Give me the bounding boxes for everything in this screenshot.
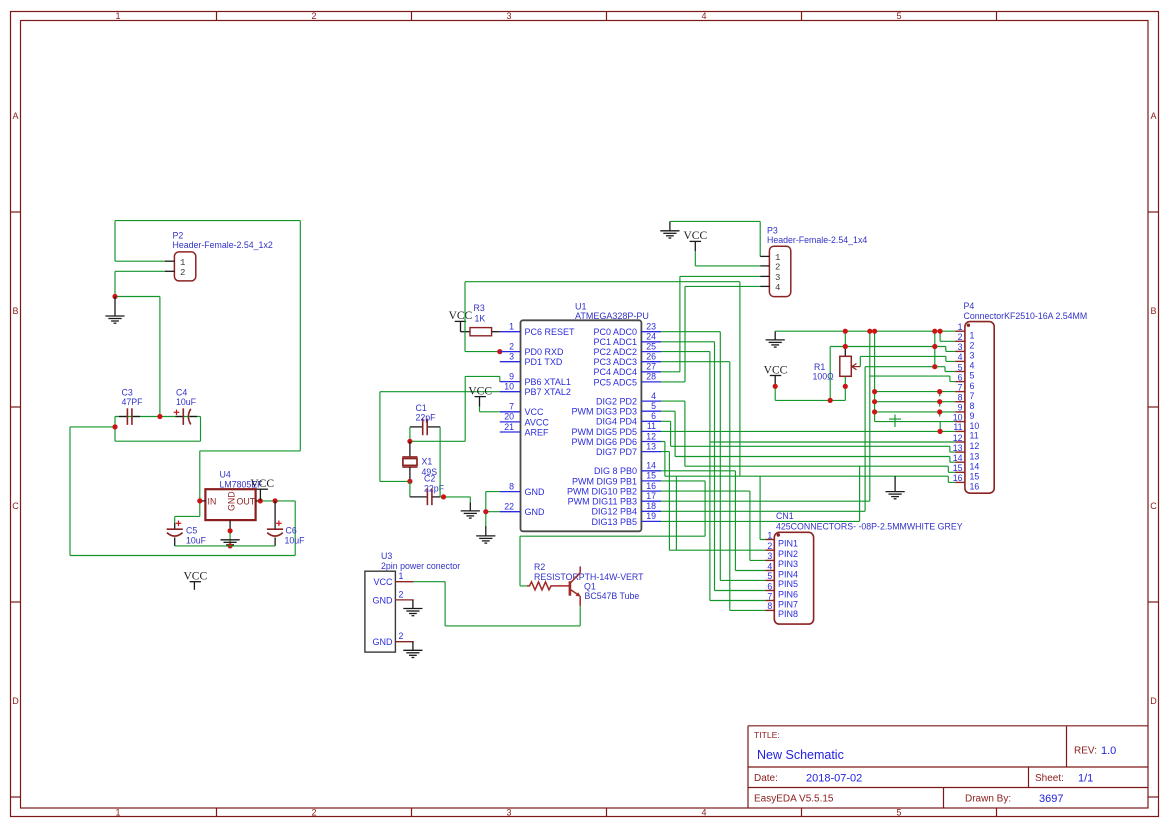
svg-text:C: C	[1150, 501, 1157, 511]
power flag VCC at U4 OUT	[250, 478, 274, 490]
svg-text:U1: U1	[575, 302, 587, 312]
svg-text:1: 1	[399, 571, 404, 581]
junction U1 pin2	[497, 349, 502, 354]
junction vcc rail x830	[828, 398, 833, 403]
P4 pin 7	[955, 382, 974, 400]
junction U4 IN	[197, 498, 202, 503]
svg-text:425CONNECTORS- -08P-2.5MMWHITE: 425CONNECTORS- -08P-2.5MMWHITE GREY	[776, 521, 963, 531]
P4 pin 11	[953, 422, 978, 440]
svg-text:7: 7	[509, 402, 514, 412]
svg-text:GND: GND	[525, 507, 546, 517]
P4 pin 9	[955, 403, 974, 421]
wire U1 pin14 to CN1 PIN4	[661, 471, 766, 571]
svg-text:2: 2	[311, 11, 316, 21]
junction bus x940	[938, 329, 943, 334]
svg-text:DIG4 PD4: DIG4 PD4	[596, 417, 637, 427]
U1 pin 16 PWM DIG10 PB2	[567, 481, 661, 497]
ground bars below P4	[886, 492, 905, 499]
U1 pin 28 PC5 ADC5	[593, 372, 661, 388]
junction crystal top	[407, 439, 412, 444]
ground bars at U3 pin2a	[403, 609, 422, 616]
U1 pin 25 PC2 ADC2	[593, 341, 661, 357]
svg-text:2: 2	[767, 541, 772, 551]
svg-text:12: 12	[970, 441, 980, 451]
svg-text:ATMEGA328P-PU: ATMEGA328P-PU	[575, 311, 649, 321]
svg-text:C3: C3	[122, 388, 133, 398]
junction R1 top pin3 line	[843, 344, 848, 349]
svg-text:7: 7	[970, 391, 975, 401]
svg-text:10: 10	[970, 421, 980, 431]
svg-text:VCC: VCC	[373, 577, 393, 587]
U1 pin 12 PWM DIG6 PD6	[571, 431, 661, 447]
svg-text:5: 5	[651, 401, 656, 411]
U3 pin 2 GND	[373, 631, 414, 647]
wire C1 left leg	[409, 427, 411, 441]
svg-text:5: 5	[896, 11, 901, 21]
svg-text:12: 12	[646, 431, 656, 441]
CN1 pin 7 PIN7	[766, 591, 799, 609]
svg-text:10: 10	[953, 412, 963, 422]
wire dangling stub row8	[939, 402, 941, 407]
wire U1 pin23 to CN1 PIN5	[661, 332, 766, 581]
power flag VCC at R3	[449, 310, 473, 322]
svg-text:1: 1	[180, 258, 185, 268]
wire U1 pin11 to P4 pin11	[661, 430, 955, 432]
P4 pin1 marker	[967, 324, 970, 327]
capacitor C3	[119, 408, 140, 425]
U1 pin 11 PWM DIG5 PD5	[571, 421, 661, 437]
svg-text:DIG 8 PB0: DIG 8 PB0	[594, 466, 637, 476]
svg-text:15: 15	[646, 471, 656, 481]
wire U1 pin12 to P4 pin16	[661, 442, 955, 483]
svg-text:B: B	[12, 306, 18, 316]
ground stem below P4	[894, 476, 896, 491]
VCC stem at P3	[694, 241, 696, 251]
junction pin5 line x934	[932, 364, 937, 369]
ground stem at U3 pin2b	[412, 642, 414, 650]
svg-text:20: 20	[504, 412, 514, 422]
svg-text:4: 4	[701, 808, 706, 818]
svg-text:6: 6	[651, 411, 656, 421]
junction C3 left node	[112, 424, 117, 429]
wire C2 right to ground	[440, 497, 470, 502]
wire VCC to P3 pin2	[695, 251, 760, 266]
U3 pin 2 GND	[373, 589, 414, 605]
svg-text:8: 8	[958, 393, 963, 403]
wire U1 pin13 to CN1 PIN2	[661, 452, 766, 551]
VCC stem at U4 OUT	[259, 489, 261, 501]
capacitor C6 polarized	[267, 501, 283, 546]
U1 pin 19 DIG13 PB5	[591, 511, 661, 527]
svg-text:4: 4	[701, 11, 706, 21]
wire bus drop to P4 pin10 line	[874, 331, 876, 421]
power flag VCC at R1	[764, 364, 788, 376]
junction P4 pin11 link	[938, 429, 943, 434]
svg-text:PIN1: PIN1	[778, 538, 798, 548]
wire C5 C6 bottom rail	[175, 545, 275, 547]
capacitor C1	[410, 419, 440, 436]
svg-text:4: 4	[958, 352, 963, 362]
svg-text:EasyEDA V5.5.15: EasyEDA V5.5.15	[754, 794, 834, 805]
svg-text:6: 6	[767, 581, 772, 591]
svg-text:PWM DIG3 PD3: PWM DIG3 PD3	[571, 407, 637, 417]
svg-text:DIG2 PD2: DIG2 PD2	[596, 397, 637, 407]
svg-text:28: 28	[646, 372, 656, 382]
svg-text:4: 4	[775, 283, 780, 293]
svg-text:DIG12 PB4: DIG12 PB4	[591, 507, 637, 517]
svg-text:1K: 1K	[475, 314, 486, 324]
svg-text:3: 3	[970, 351, 975, 361]
wire P4 pin8 row	[875, 401, 956, 403]
ground stem at C2	[469, 502, 471, 510]
U1 pin 7 VCC	[500, 402, 544, 418]
U1 pin 18 DIG12 PB4	[591, 501, 661, 517]
power flag VCC at U1 pin7	[468, 385, 492, 397]
svg-text:PWM DIG11 PB3: PWM DIG11 PB3	[568, 497, 637, 507]
U1 pin 22 GND	[500, 502, 545, 518]
svg-text:GND: GND	[373, 595, 394, 605]
junction U4 GND stem	[228, 528, 233, 533]
U1 pin 17 PWM DIG11 PB3	[568, 491, 661, 507]
svg-text:P2: P2	[173, 231, 184, 241]
wire R1 top to bus	[844, 331, 846, 346]
svg-text:47PF: 47PF	[122, 397, 144, 407]
svg-text:5: 5	[970, 371, 975, 381]
wire U4 OUT to right	[262, 500, 295, 502]
svg-text:C: C	[12, 501, 19, 511]
svg-text:1: 1	[958, 322, 963, 332]
svg-text:1: 1	[509, 322, 514, 332]
svg-text:6: 6	[970, 381, 975, 391]
junction pin3 line x934	[932, 344, 937, 349]
CN1 pin 4 PIN4	[766, 561, 799, 579]
P4 pin 10	[953, 412, 980, 430]
wire stub branch at x676	[675, 476, 677, 550]
wire U1 pin16 to CN1 PIN3	[661, 491, 766, 560]
svg-text:2: 2	[958, 332, 963, 342]
wire dangling stub row9	[939, 412, 941, 417]
svg-text:2: 2	[509, 341, 514, 351]
svg-text:3: 3	[767, 551, 772, 561]
connector P4 ConnectorKF2510-16A body	[965, 322, 994, 494]
junction R1 bottom	[843, 384, 848, 389]
svg-text:IN: IN	[208, 496, 217, 506]
svg-text:26: 26	[646, 352, 656, 362]
U1 pin 13 DIG7 PD7	[596, 441, 661, 457]
svg-text:18: 18	[646, 501, 656, 511]
svg-text:R1: R1	[814, 362, 825, 372]
svg-text:25: 25	[646, 341, 656, 351]
svg-text:10uF: 10uF	[186, 536, 207, 546]
U1 pin 4 DIG2 PD2	[596, 391, 661, 407]
svg-text:RESISTORPTH-14W-VERT: RESISTORPTH-14W-VERT	[534, 572, 644, 582]
svg-text:11: 11	[953, 422, 962, 432]
svg-text:R2: R2	[534, 562, 545, 572]
capacitor C2	[410, 489, 440, 506]
svg-text:1: 1	[970, 330, 975, 340]
wire U1 pin5 to P4 pin14	[661, 411, 955, 462]
wire U1 pin24 to CN1 PIN6	[661, 342, 766, 591]
junction row9 left	[872, 409, 877, 414]
svg-text:C4: C4	[176, 388, 187, 398]
U1 pin 26 PC3 ADC3	[593, 352, 661, 368]
svg-text:2: 2	[180, 268, 185, 278]
wire branch pin25 net to P4 pin12	[710, 441, 955, 443]
capacitor C4 polarized	[174, 408, 197, 425]
ground bars at P2	[105, 316, 124, 323]
junction bus R1	[843, 329, 848, 334]
VCC stem at R3	[460, 322, 462, 332]
svg-text:Drawn By:: Drawn By:	[965, 794, 1011, 805]
wire P4 pin10 row	[875, 421, 956, 423]
svg-text:DIG7 PD7: DIG7 PD7	[596, 447, 637, 457]
U1 pin 6 DIG4 PD4	[596, 411, 661, 427]
svg-text:Date:: Date:	[754, 773, 778, 784]
svg-text:16: 16	[953, 473, 963, 483]
svg-text:U4: U4	[220, 470, 231, 480]
connector U3 2pin power conector body	[365, 571, 396, 652]
svg-text:GND: GND	[525, 487, 546, 497]
svg-text:3697: 3697	[1039, 793, 1063, 805]
svg-text:1/1: 1/1	[1078, 773, 1093, 785]
CN1 pin 3 PIN3	[766, 551, 799, 569]
U1 pin 2 PD0 RXD	[500, 341, 564, 357]
svg-text:9: 9	[958, 403, 963, 413]
power flag VCC floating below U4	[183, 571, 207, 583]
svg-text:VCC: VCC	[183, 571, 207, 583]
svg-text:27: 27	[646, 362, 656, 372]
svg-text:22: 22	[504, 502, 514, 512]
P4 pin 16	[953, 473, 980, 491]
junction U4 GND rail	[228, 543, 233, 548]
wire P4 pin3 line	[830, 347, 955, 401]
svg-text:PWM DIG6 PD6: PWM DIG6 PD6	[571, 437, 637, 447]
svg-text:3: 3	[506, 808, 511, 818]
wire R1 wiper to P4 pin4	[860, 356, 955, 366]
ground stem at bus	[774, 331, 776, 340]
ground bars at U1 gnd	[476, 536, 495, 543]
wire R3 to U1 pin1	[492, 331, 500, 333]
svg-text:Header-Female-2.54_1x2: Header-Female-2.54_1x2	[173, 240, 273, 250]
wire U1 pin8 pin22 gnd	[486, 492, 500, 526]
wire U3 VCC to Q1 emitter	[414, 582, 581, 626]
svg-text:PB7 XTAL2: PB7 XTAL2	[525, 387, 571, 397]
junction C2 right	[441, 494, 446, 499]
P4 pin 8	[955, 393, 974, 411]
connector CN1 body	[774, 532, 813, 624]
svg-text:A: A	[12, 111, 18, 121]
P4 pin 13	[953, 443, 980, 461]
svg-text:1: 1	[767, 530, 772, 540]
VCC stem at U1 pin7	[479, 397, 481, 407]
svg-text:PWM DIG9 PB1: PWM DIG9 PB1	[572, 476, 637, 486]
svg-text:P3: P3	[767, 226, 778, 236]
U3 pin 1 VCC	[373, 571, 413, 587]
crystal X1	[402, 441, 417, 481]
wire P3 pin3 to U1 pin27	[661, 276, 760, 371]
svg-text:9: 9	[970, 411, 975, 421]
svg-text:VCC: VCC	[449, 310, 473, 322]
U1 pin 1 PC6 RESET	[500, 322, 575, 338]
junction crystal bottom	[407, 479, 412, 484]
P4 pin 6	[955, 372, 974, 390]
resistor R1	[840, 347, 861, 377]
svg-text:9: 9	[509, 371, 514, 381]
svg-text:VCC: VCC	[764, 364, 788, 376]
wire U1 pin10 long to crystal bottom	[380, 392, 500, 482]
svg-text:22pF: 22pF	[424, 483, 445, 493]
wire P4 pin9 row	[875, 411, 956, 413]
CN1 pin 5 PIN5	[766, 571, 799, 589]
P4 pin 15	[953, 463, 980, 481]
svg-text:PC5 ADC5: PC5 ADC5	[593, 377, 637, 387]
svg-text:19: 19	[646, 511, 656, 521]
svg-text:AREF: AREF	[525, 427, 550, 437]
transistor Q1 BC547B	[570, 566, 581, 606]
connector P2 Header-Female-2.54_1x2	[165, 252, 196, 281]
wire bus to P4 pin2	[940, 331, 955, 341]
P4 pin 14	[953, 453, 980, 471]
svg-text:7: 7	[767, 591, 772, 601]
svg-text:VCC: VCC	[525, 407, 545, 417]
CN1 pin 8 PIN8	[766, 601, 799, 619]
svg-text:4: 4	[767, 561, 772, 571]
U1 pin 8 GND	[500, 481, 545, 497]
svg-text:REV:: REV:	[1074, 746, 1097, 757]
svg-text:23: 23	[646, 322, 656, 332]
junction row9 right	[937, 409, 942, 414]
wire U4 GND to rail	[229, 531, 231, 547]
svg-text:13: 13	[953, 443, 963, 453]
wire P4 pin5 line	[865, 367, 955, 372]
svg-text:D: D	[1150, 696, 1157, 706]
svg-text:PIN3: PIN3	[778, 559, 798, 569]
P4 pin 2	[955, 332, 974, 350]
svg-text:PC6 RESET: PC6 RESET	[525, 327, 576, 337]
wire RXD net from U1 pin2	[465, 282, 740, 477]
U1 pin 10 PB7 XTAL2	[500, 382, 571, 398]
CN1 pin 6 PIN6	[766, 581, 799, 599]
VCC floating stem	[193, 582, 195, 590]
svg-text:GND: GND	[373, 637, 394, 647]
svg-text:R3: R3	[474, 303, 485, 313]
junction VCC R1 stem	[773, 384, 778, 389]
U1 pin 5 PWM DIG3 PD3	[571, 401, 661, 417]
wire riser to CN1 PIN1	[760, 476, 765, 539]
svg-text:3: 3	[506, 11, 511, 21]
svg-text:10uF: 10uF	[285, 536, 306, 546]
svg-text:13: 13	[646, 441, 656, 451]
junction U1 gnd pins	[483, 509, 488, 514]
IC U1 ATMEGA328P-PU body	[521, 320, 642, 531]
svg-text:PD0 RXD: PD0 RXD	[525, 347, 565, 357]
svg-text:PC0 ADC0: PC0 ADC0	[593, 327, 637, 337]
svg-text:P4: P4	[964, 301, 975, 311]
svg-text:X1: X1	[422, 457, 433, 467]
svg-text:2pin power conector: 2pin power conector	[381, 561, 460, 571]
svg-text:8: 8	[970, 401, 975, 411]
svg-text:Q1: Q1	[584, 582, 596, 592]
svg-text:5: 5	[958, 362, 963, 372]
svg-text:TITLE:: TITLE:	[754, 730, 780, 740]
U1 pin 27 PC4 ADC4	[593, 362, 661, 378]
svg-text:C1: C1	[416, 403, 427, 413]
svg-text:4: 4	[970, 361, 975, 371]
junction row7 right	[937, 389, 942, 394]
wire C1 right to C2 right	[439, 427, 441, 497]
CN1 pin1 marker	[777, 533, 780, 536]
wire crystal bottom to C2	[409, 481, 411, 497]
svg-text:PWM DIG10 PB2: PWM DIG10 PB2	[567, 487, 637, 497]
svg-text:PIN5: PIN5	[778, 579, 798, 589]
svg-text:1: 1	[115, 11, 120, 21]
svg-text:GND: GND	[227, 491, 237, 511]
voltage regulator U4 LM7805	[200, 489, 262, 520]
junction U4 OUT vcc	[258, 498, 263, 503]
svg-text:14: 14	[970, 461, 980, 471]
svg-text:DIG13 PB5: DIG13 PB5	[591, 517, 637, 527]
U1 pin 14 DIG 8 PB0	[594, 461, 661, 477]
U1 pin 15 PWM DIG9 PB1	[572, 471, 661, 487]
svg-text:BC547B Tube: BC547B Tube	[585, 591, 640, 601]
wire P2 pin1 net top rail	[115, 221, 300, 262]
svg-text:10uF: 10uF	[176, 397, 197, 407]
svg-text:8: 8	[509, 481, 514, 491]
power flag VCC at P3	[683, 230, 707, 242]
wire unfinished cross	[889, 415, 901, 428]
wire P3 pin4 to U1 pin28	[661, 286, 760, 382]
svg-text:PIN6: PIN6	[778, 589, 798, 599]
P4 pin 3	[955, 342, 974, 360]
U1 pin 9 PB6 XTAL1	[500, 371, 571, 387]
svg-text:21: 21	[504, 422, 514, 432]
ground stem at U1 pin22	[485, 526, 487, 536]
U4 GND pin stem	[229, 520, 231, 531]
wire R2 net riser to U1 pin15	[661, 481, 705, 536]
svg-text:D: D	[12, 696, 19, 706]
wire P2 top rail down to U4 IN	[175, 221, 301, 523]
ground bars at bus	[766, 340, 785, 347]
wire P4 pin7 row	[875, 391, 956, 393]
svg-text:3: 3	[775, 273, 780, 283]
svg-text:5: 5	[896, 808, 901, 818]
svg-text:PC3 ADC3: PC3 ADC3	[593, 357, 637, 367]
wire C3 C4 top rail	[115, 416, 201, 418]
svg-text:PC2 ADC2: PC2 ADC2	[593, 347, 637, 357]
svg-text:PIN4: PIN4	[778, 569, 798, 579]
svg-text:1: 1	[775, 253, 780, 263]
U1 pin 23 PC0 ADC0	[593, 322, 661, 338]
svg-text:B: B	[1150, 306, 1156, 316]
resistor R3	[470, 328, 492, 336]
svg-text:VCC: VCC	[468, 385, 492, 397]
svg-text:3: 3	[958, 342, 963, 352]
svg-text:PWM DIG5 PD5: PWM DIG5 PD5	[571, 427, 637, 437]
wire U1 pin9 to crystal	[410, 376, 500, 441]
P4 pin 5	[955, 362, 974, 380]
junction U4 OUT C6	[273, 498, 278, 503]
wire from C3 node to left	[70, 427, 295, 556]
svg-text:11: 11	[970, 431, 979, 441]
svg-text:C2: C2	[424, 474, 435, 484]
svg-text:2: 2	[775, 262, 780, 272]
svg-text:24: 24	[646, 332, 656, 342]
resistor R2 zigzag	[527, 582, 569, 590]
capacitor C5 polarized	[167, 521, 183, 546]
svg-text:2: 2	[311, 808, 316, 818]
wire U1 pin19 riser	[661, 466, 860, 521]
svg-text:VCC: VCC	[683, 230, 707, 242]
